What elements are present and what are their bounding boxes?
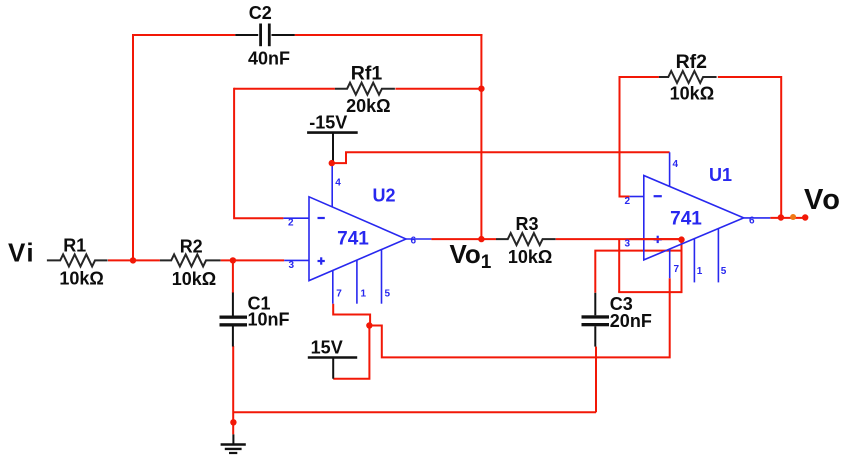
op-amp U1 bbox=[630, 152, 771, 282]
resistor R3 bbox=[496, 233, 556, 245]
wire: U1 pin3 loop left vertical bbox=[618, 239, 620, 292]
svg-text:20kΩ: 20kΩ bbox=[346, 96, 390, 116]
svg-text:2: 2 bbox=[288, 218, 294, 229]
supply -15V bbox=[307, 131, 358, 134]
svg-text:5: 5 bbox=[721, 266, 727, 277]
svg-text:C2: C2 bbox=[249, 3, 272, 23]
wire: Rf1 left horizontal bbox=[234, 88, 335, 90]
wire: 15V supply stub bbox=[333, 326, 369, 379]
wire: Rf1 right horizontal bbox=[395, 88, 481, 90]
svg-text:5: 5 bbox=[385, 289, 391, 300]
svg-text:Rf1: Rf1 bbox=[351, 63, 383, 85]
capacitor C2 bbox=[235, 34, 258, 36]
svg-text:10kΩ: 10kΩ bbox=[172, 269, 216, 289]
wire: U2 pin7 to 15V junction bbox=[333, 304, 370, 326]
wire: C1 top vertical bbox=[232, 260, 234, 293]
wire: U2 output to R3 bbox=[431, 238, 496, 240]
capacitor C3 bbox=[594, 293, 596, 316]
wire: node A vertical (R1/R2 junction up to C2) bbox=[132, 35, 134, 260]
svg-text:7: 7 bbox=[336, 289, 342, 300]
resistor R1 bbox=[47, 254, 108, 266]
junction: R2/pin3/C1 node bbox=[230, 257, 236, 263]
junction: ground node bbox=[230, 419, 236, 425]
wire: right feedback vertical (C2/Rf1 to U2 output) bbox=[480, 34, 482, 239]
junction: R1/R2/C2 node bbox=[130, 257, 136, 263]
svg-text:R1: R1 bbox=[63, 236, 86, 256]
svg-text:40nF: 40nF bbox=[248, 48, 290, 68]
wire: C2 left horizontal bbox=[132, 34, 235, 36]
svg-text:15V: 15V bbox=[311, 338, 343, 358]
svg-text:741: 741 bbox=[337, 228, 369, 249]
resistor R2 bbox=[160, 254, 221, 266]
ground bbox=[232, 434, 234, 444]
wire: C1 bottom to ground bbox=[232, 346, 234, 434]
junction: Rf1 right end bbox=[478, 86, 484, 92]
resistor Rf2 bbox=[659, 71, 717, 83]
capacitor C1 bbox=[232, 293, 234, 316]
wire: R2 to U2 pin3 bbox=[221, 259, 285, 261]
junction: -15V / U2 pin4 bbox=[329, 160, 335, 166]
svg-text:R2: R2 bbox=[180, 237, 203, 257]
junction: U2 output node bbox=[478, 236, 484, 242]
svg-text:20nF: 20nF bbox=[610, 311, 652, 331]
svg-text:Vo: Vo bbox=[804, 184, 841, 216]
svg-text:3: 3 bbox=[289, 260, 295, 271]
wire: U1 output to Vo bbox=[770, 217, 805, 219]
terminal dot Vo bbox=[802, 214, 808, 220]
svg-text:R3: R3 bbox=[515, 214, 538, 234]
svg-text:10kΩ: 10kΩ bbox=[508, 247, 552, 267]
wire: -15V rail to U1 pin4 bbox=[332, 152, 670, 163]
wire: bottom ground bus bbox=[233, 411, 596, 413]
wire: 15V rail to U1 pin7 bbox=[369, 278, 669, 357]
svg-text:741: 741 bbox=[670, 208, 702, 229]
svg-text:10kΩ: 10kΩ bbox=[59, 269, 103, 289]
svg-text:6: 6 bbox=[411, 236, 417, 247]
junction: Rf2 / output node bbox=[778, 214, 784, 220]
svg-text:U1: U1 bbox=[709, 165, 732, 185]
svg-text:10kΩ: 10kΩ bbox=[670, 84, 714, 104]
wire: R3 to U1 pin3 node bbox=[556, 238, 682, 240]
wire: U1 pin3 loop bottom bbox=[618, 291, 681, 293]
svg-text:1: 1 bbox=[697, 266, 703, 277]
svg-text:10nF: 10nF bbox=[248, 310, 290, 330]
junction: U1 pin3 node bbox=[678, 236, 684, 242]
probe dot (orange) bbox=[790, 214, 796, 220]
wire: C3 bottom vertical to ground bus bbox=[595, 347, 597, 413]
wire: main input R1 to R2 bbox=[108, 259, 160, 261]
wire: Rf2 right vertical to output bbox=[718, 77, 781, 218]
svg-text:4: 4 bbox=[673, 159, 679, 170]
wire: U1 pin3 loop right vertical bbox=[681, 239, 683, 293]
svg-text:7: 7 bbox=[674, 264, 680, 275]
svg-text:Vi: Vi bbox=[8, 237, 35, 267]
svg-text:6: 6 bbox=[749, 216, 755, 227]
resistor Rf1 bbox=[335, 83, 395, 95]
svg-text:U2: U2 bbox=[372, 186, 395, 206]
supply 15V bbox=[308, 356, 357, 359]
op-amp U2 bbox=[283, 163, 431, 304]
wire: R3 net overlay across U1 pin3 bbox=[630, 238, 682, 240]
svg-text:1: 1 bbox=[361, 289, 367, 300]
wire: Rf1 to U2 pin2 vertical bbox=[234, 88, 283, 219]
wire: C3 top horizontal bbox=[595, 251, 681, 293]
wire: Rf2 left vertical to U1 pin2 bbox=[620, 77, 659, 197]
svg-text:2: 2 bbox=[625, 196, 631, 207]
svg-text:Rf2: Rf2 bbox=[676, 51, 708, 73]
svg-text:4: 4 bbox=[335, 177, 341, 188]
wire: C2 right horizontal to right vertical bbox=[295, 34, 483, 36]
svg-text:3: 3 bbox=[625, 239, 631, 250]
junction: 15V node bbox=[366, 322, 372, 328]
svg-text:-15V: -15V bbox=[309, 112, 347, 132]
